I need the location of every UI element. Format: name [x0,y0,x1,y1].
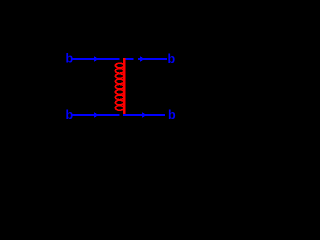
resistor coil R (red) [115,58,124,114]
coil loop 3 [115,74,123,79]
coil loop 1 [115,63,123,68]
coil loop 8 [115,100,123,105]
arrow on top rail (right) [140,56,145,62]
coil loop 4 [115,79,123,84]
arrow on bottom rail (left) [94,112,99,118]
wire bottom rail segment 2 [123,114,165,116]
circuit figure: two rails with resistor coil [0,0,251,181]
coil loop 6 [115,90,123,95]
svg-text:b: b [168,52,176,66]
coil loop 2 [115,69,123,74]
coil loop 9 [115,106,123,111]
coil spine [123,58,125,114]
arrow on bottom rail (right) [142,112,147,118]
wire bottom rail segment 1 [71,114,120,116]
coil loop 7 [115,95,123,100]
arrow on top rail (left) [94,56,99,62]
wire top rail segment 1 [71,58,119,60]
coil loop 5 [115,84,123,89]
wire top rail segment 3 [138,58,167,60]
wire top rail segment 2 [123,58,133,60]
svg-text:b: b [168,108,176,122]
